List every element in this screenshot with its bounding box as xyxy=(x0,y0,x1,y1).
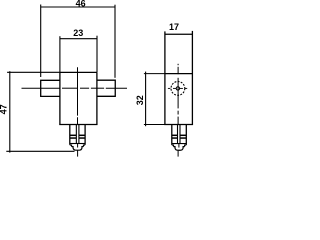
front spigot groove bar 1 xyxy=(70,134,85,136)
side spigot step left xyxy=(172,145,174,147)
side spigot outer right edge xyxy=(185,125,187,145)
dim 23 dimension line xyxy=(60,38,97,40)
front spigot shoulder line xyxy=(70,143,85,145)
dim 46 extension line left xyxy=(40,5,42,78)
side spigot groove bar 1 xyxy=(172,134,187,136)
svg-text:32: 32 xyxy=(135,95,145,105)
cable hole circle (hidden) xyxy=(171,82,185,96)
front spigot groove bar 2 xyxy=(70,137,85,139)
front horizontal centerline xyxy=(22,87,128,89)
svg-text:17: 17 xyxy=(169,22,179,32)
side body right edge xyxy=(191,31,193,125)
front spigot slot right line xyxy=(78,125,80,144)
dim 23 extension line right xyxy=(96,36,98,73)
front spigot outer right edge xyxy=(84,125,86,145)
front body left edge xyxy=(59,72,61,124)
dim 46 extension line right xyxy=(114,5,116,78)
front spigot outer left edge xyxy=(69,125,71,145)
dim 23 extension line left xyxy=(59,36,61,72)
side body bottom edge xyxy=(164,124,193,126)
side spigot shoulder line xyxy=(172,143,187,145)
cable hole inner circle xyxy=(176,87,179,90)
dim 47 extension line bottom xyxy=(6,150,74,152)
front body right edge xyxy=(96,72,98,124)
front spigot tip dome xyxy=(72,147,84,151)
svg-text:46: 46 xyxy=(76,0,86,8)
front body top edge xyxy=(60,71,97,73)
dim 32 extension line top xyxy=(144,73,165,75)
front spigot step left xyxy=(70,145,72,147)
front centerline below tip xyxy=(77,150,79,156)
side spigot outer left edge xyxy=(171,125,173,145)
dim 32 dimension line xyxy=(145,72,147,127)
side centerline below tip xyxy=(177,151,179,157)
side spigot groove bar 2 xyxy=(172,137,187,139)
front body bottom edge xyxy=(59,124,97,126)
side spigot tip center mark xyxy=(178,144,180,148)
right mounting tab xyxy=(97,80,115,96)
dim 47 extension line top xyxy=(7,71,60,73)
dim 32 extension line bottom xyxy=(144,123,165,125)
dim 46 dimension line xyxy=(41,6,115,8)
dim 47 dimension line xyxy=(9,71,11,152)
left mounting tab xyxy=(41,80,60,96)
side spigot step right xyxy=(185,145,187,147)
side spigot slot left line xyxy=(177,125,179,144)
svg-text:23: 23 xyxy=(73,28,83,38)
front spigot slot left line xyxy=(75,125,77,144)
side body top edge / dim 17 line xyxy=(165,33,193,35)
side body feature line xyxy=(165,73,193,75)
front spigot tip center mark xyxy=(77,144,79,148)
side body left edge xyxy=(164,31,166,124)
side spigot tip dome xyxy=(174,147,185,151)
hole crosshair horizontal xyxy=(168,87,187,89)
side vertical centerline xyxy=(177,64,179,125)
svg-text:47: 47 xyxy=(0,104,9,114)
front vertical centerline xyxy=(77,67,79,124)
side spigot slot right line xyxy=(179,125,181,144)
front spigot step right xyxy=(83,145,85,147)
